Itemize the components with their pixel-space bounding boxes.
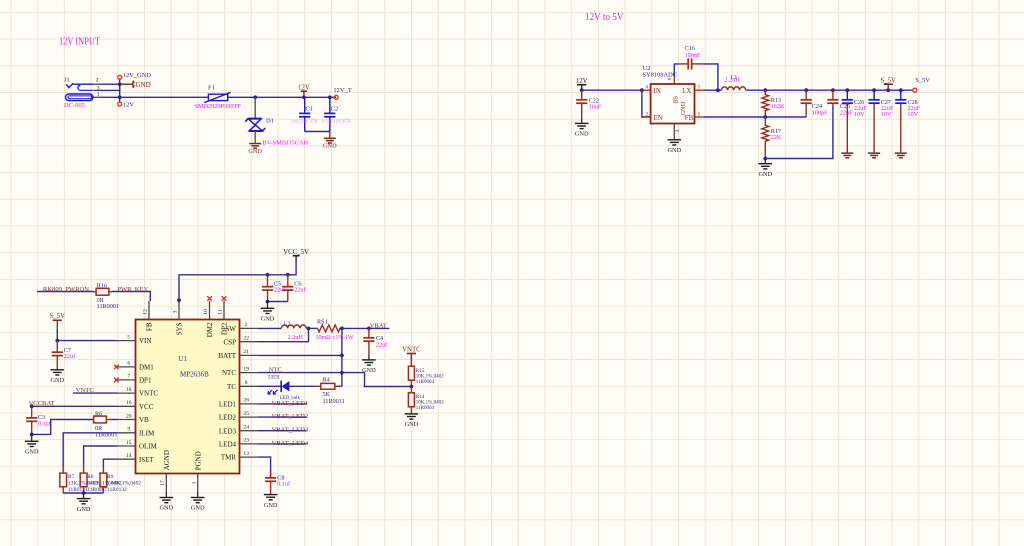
value RS1 bbox=[316, 335, 354, 341]
wire SW to L2 bbox=[258, 327, 282, 329]
svg-text:J1: J1 bbox=[64, 77, 70, 84]
svg-text:7.68K,1%,0402: 7.68K,1%,0402 bbox=[107, 480, 141, 486]
U1 pin 11 DP2 bbox=[218, 301, 224, 320]
junction C26 top bbox=[845, 88, 849, 92]
junction RS1 out bbox=[340, 327, 344, 331]
svg-text:3: 3 bbox=[173, 310, 179, 313]
designator LED1 bbox=[268, 375, 280, 380]
U1 pin 23 LED4 bbox=[240, 438, 259, 444]
svg-text:VIN: VIN bbox=[139, 337, 151, 345]
capacitor C7 bbox=[52, 341, 76, 369]
svg-text:LED1: LED1 bbox=[268, 375, 280, 380]
junction R13 top bbox=[763, 88, 767, 92]
capacitor C26 bbox=[842, 90, 867, 118]
power stem VCCBAT bbox=[31, 406, 33, 418]
U1 pin 24 LED3 bbox=[240, 425, 259, 431]
svg-text:SYS: SYS bbox=[176, 322, 184, 335]
svg-text:2: 2 bbox=[645, 111, 648, 117]
power port 12V_T bbox=[333, 87, 351, 99]
svg-text:D1: D1 bbox=[266, 118, 274, 125]
svg-text:VB: VB bbox=[139, 416, 149, 424]
partnum R9 bbox=[107, 487, 127, 493]
inductor L2 bbox=[282, 325, 307, 328]
power port VCC_5V bbox=[283, 249, 309, 262]
svg-text:SMD2920P300TF: SMD2920P300TF bbox=[194, 103, 241, 110]
svg-text:23: 23 bbox=[243, 438, 249, 444]
capacitor C27 bbox=[869, 90, 894, 118]
svg-text:BS: BS bbox=[672, 95, 679, 103]
svg-text:IN: IN bbox=[654, 87, 661, 95]
junction C7 tap bbox=[55, 339, 59, 343]
ground symbol C26 bbox=[841, 152, 853, 158]
designator R9 bbox=[107, 474, 114, 480]
wire LED4 net bbox=[258, 443, 307, 445]
wire J1 pin2 to node bbox=[100, 83, 120, 85]
svg-text:R4: R4 bbox=[323, 377, 330, 384]
junction LX bootstrap bbox=[716, 88, 720, 92]
U2 pin 5 LX bbox=[695, 85, 704, 91]
designator R7 bbox=[68, 474, 75, 480]
svg-text:ISET: ISET bbox=[139, 456, 155, 464]
partnum R14 bbox=[416, 406, 435, 411]
svg-text:GND: GND bbox=[50, 377, 64, 384]
wire battery vertical bbox=[341, 328, 343, 386]
svg-text:GND: GND bbox=[248, 148, 262, 155]
svg-text:AGND: AGND bbox=[163, 450, 171, 470]
wire C1 bottom to C2 bottom bbox=[305, 131, 330, 133]
svg-text:12V to 5V: 12V to 5V bbox=[585, 12, 624, 23]
svg-text:6: 6 bbox=[127, 361, 130, 367]
svg-text:R14: R14 bbox=[416, 394, 425, 400]
U1 pin 19 NTC bbox=[240, 366, 259, 372]
wire LED2 net bbox=[258, 416, 307, 418]
svg-text:S_5V: S_5V bbox=[50, 313, 66, 320]
U1 pin 5 VIN bbox=[117, 334, 136, 340]
svg-text:11R0132: 11R0132 bbox=[107, 487, 127, 493]
svg-text:3: 3 bbox=[675, 129, 681, 132]
junction NTC cross bbox=[340, 371, 344, 375]
J1 pin 3 bbox=[93, 85, 100, 91]
wire OLIM bbox=[84, 446, 117, 467]
J1 pin 2 bbox=[93, 78, 100, 85]
svg-text:GND: GND bbox=[758, 171, 772, 178]
ground C2 bbox=[323, 132, 337, 150]
svg-text:22: 22 bbox=[243, 336, 249, 342]
junction C3 bottom bbox=[30, 433, 34, 437]
charger IC U1 MP2636B bbox=[136, 320, 240, 474]
value SY8108ADC bbox=[643, 72, 677, 79]
ground U2 pin3 bbox=[667, 139, 681, 154]
svg-text:VCC: VCC bbox=[139, 403, 154, 411]
svg-text:LED3: LED3 bbox=[219, 427, 237, 435]
resistor R4 bbox=[315, 383, 339, 389]
U1 pin 13 TMR bbox=[240, 451, 259, 457]
junction D1 tap bbox=[253, 95, 257, 99]
U1 pin 25 LED2 bbox=[240, 411, 259, 417]
value R4 5K bbox=[323, 391, 331, 398]
svg-text:TMR: TMR bbox=[221, 454, 237, 462]
wire L2 to RS1 bbox=[306, 327, 317, 329]
power port 12V_GND bbox=[118, 72, 152, 82]
value 22K bbox=[771, 134, 782, 141]
svg-text:12V: 12V bbox=[298, 85, 310, 92]
svg-text:1: 1 bbox=[698, 111, 701, 117]
wire 12V rail J1 to F1 bbox=[100, 96, 205, 98]
resistor R13 bbox=[762, 90, 769, 117]
net label RK809_PWRON bbox=[43, 286, 89, 293]
resistor R17 bbox=[762, 117, 769, 159]
value BV-SMBJ15CAH bbox=[263, 139, 309, 146]
svg-text:DP2: DP2 bbox=[221, 322, 229, 335]
wire RS1 to VBAT bbox=[342, 327, 390, 329]
svg-text:BV-SMBJ15CAH: BV-SMBJ15CAH bbox=[263, 139, 309, 146]
value R15 bbox=[416, 374, 444, 379]
svg-text:0.1uf: 0.1uf bbox=[277, 481, 291, 488]
svg-text:22uf: 22uf bbox=[294, 287, 306, 294]
designator R15 bbox=[416, 368, 425, 374]
ground R17 bbox=[758, 159, 772, 178]
svg-text:VBAT: VBAT bbox=[370, 322, 387, 329]
U1 pin 1 PGND bbox=[191, 474, 197, 493]
svg-text:LED1: LED1 bbox=[219, 401, 237, 409]
svg-text:12V_GND: 12V_GND bbox=[123, 72, 152, 79]
partnum R6 11R0001 bbox=[95, 431, 117, 438]
svg-text:GND: GND bbox=[136, 81, 151, 89]
wire TC to LED bbox=[258, 385, 281, 387]
U1 pin 17 AGND bbox=[160, 474, 166, 493]
TVS diode D1 bbox=[245, 97, 265, 142]
svg-text:100pF: 100pF bbox=[812, 109, 828, 116]
svg-text:VBAT_LED3: VBAT_LED3 bbox=[272, 427, 309, 434]
inductor L1 bbox=[722, 87, 746, 90]
wire C3 to VB row bbox=[32, 420, 93, 435]
svg-text:R7: R7 bbox=[68, 474, 75, 480]
capacitor C25 bbox=[827, 90, 853, 116]
U1 pin 14 ISET bbox=[117, 453, 136, 459]
svg-text:GND: GND bbox=[25, 449, 39, 456]
svg-text:22K: 22K bbox=[771, 134, 782, 141]
wire RK809_PWRON to R16 bbox=[37, 291, 93, 293]
svg-text:10K,1%,0402: 10K,1%,0402 bbox=[416, 400, 444, 405]
svg-text:GND: GND bbox=[191, 505, 205, 512]
svg-text:R8: R8 bbox=[87, 474, 94, 480]
svg-text:10V: 10V bbox=[881, 111, 892, 118]
svg-text:EN: EN bbox=[654, 114, 663, 122]
junction FB divider bbox=[763, 115, 767, 119]
wire BATT node bbox=[258, 354, 342, 356]
U1 pin 16 VCC bbox=[117, 400, 136, 406]
svg-text:2.2uH: 2.2uH bbox=[288, 334, 304, 341]
no-connect DP2 bbox=[222, 296, 227, 301]
capacitor C5 bbox=[262, 275, 286, 302]
J1 pin 1 bbox=[93, 92, 100, 98]
junction S_5V bbox=[886, 88, 890, 92]
value DC-005 bbox=[64, 102, 85, 109]
net label PWR_KEY bbox=[117, 286, 148, 293]
junction C5 gnd bbox=[266, 300, 270, 304]
capacitor C3 bbox=[26, 414, 52, 434]
U1 pin 6 DM1 bbox=[117, 361, 136, 367]
svg-text:RS1: RS1 bbox=[317, 318, 328, 325]
svg-text:PGND: PGND bbox=[194, 451, 202, 470]
svg-text:F1: F1 bbox=[208, 84, 215, 91]
svg-text:10uF: 10uF bbox=[589, 104, 602, 111]
svg-text:NTC: NTC bbox=[222, 369, 236, 377]
svg-text:21: 21 bbox=[243, 349, 249, 355]
svg-text:LX: LX bbox=[682, 87, 691, 95]
capacitor C2 bbox=[322, 97, 351, 131]
resistor R7 bbox=[60, 467, 67, 494]
svg-text:12V: 12V bbox=[123, 102, 134, 109]
capacitor C6 bbox=[282, 275, 306, 302]
junction EN branch bbox=[640, 88, 644, 92]
resistor R6 bbox=[93, 416, 112, 423]
junction C6 top bbox=[286, 273, 290, 277]
designator R17 bbox=[771, 128, 781, 135]
U1 pin 10 DM2 bbox=[203, 301, 209, 320]
wire C16 to LX node bbox=[703, 64, 718, 90]
junction VCCBAT C3 bbox=[30, 404, 34, 408]
svg-text:DM1: DM1 bbox=[139, 364, 154, 372]
svg-text:VNTC: VNTC bbox=[402, 347, 421, 354]
power port 12V input bbox=[576, 78, 588, 90]
U2 pin 6 BS bbox=[667, 76, 674, 84]
wire CSP bbox=[258, 328, 309, 341]
value LED_bulk bbox=[280, 396, 301, 401]
svg-text:6: 6 bbox=[667, 77, 673, 80]
svg-text:25: 25 bbox=[243, 411, 249, 417]
svg-text:4: 4 bbox=[645, 85, 648, 91]
svg-text:S_5V: S_5V bbox=[880, 77, 896, 84]
ground C27 bbox=[873, 103, 875, 152]
power port VNTC right bbox=[402, 347, 421, 367]
svg-text:R6: R6 bbox=[95, 410, 102, 417]
junction C4 tap bbox=[367, 327, 371, 331]
svg-text:26: 26 bbox=[243, 398, 249, 404]
connector J1 DC-005 barrel jack bbox=[66, 83, 94, 100]
wire L1 to output rail bbox=[746, 89, 910, 91]
junction 12V C22 bbox=[580, 88, 584, 92]
svg-text:DP1: DP1 bbox=[139, 377, 152, 385]
resistor R8 bbox=[80, 467, 87, 494]
U2 pin 2 EN bbox=[642, 111, 651, 117]
net label VBAT_LED4 bbox=[272, 440, 309, 447]
value L2 2.2uH bbox=[288, 334, 304, 341]
power port 12V bbox=[118, 97, 135, 108]
svg-text:0.1uf: 0.1uf bbox=[38, 420, 52, 427]
svg-text:R16: R16 bbox=[97, 283, 107, 290]
value R6 0R bbox=[95, 425, 103, 432]
ground PGND bbox=[191, 492, 205, 512]
ground C4 bbox=[362, 354, 376, 374]
svg-text:GND: GND bbox=[405, 421, 419, 428]
designator RS1 bbox=[317, 318, 328, 325]
svg-text:12V INPUT: 12V INPUT bbox=[59, 37, 100, 48]
svg-text:5: 5 bbox=[698, 85, 701, 91]
ground symbol C27 bbox=[868, 152, 880, 158]
junction CSP tap bbox=[307, 327, 311, 331]
value R7 bbox=[68, 480, 98, 486]
svg-text:CSP: CSP bbox=[224, 338, 237, 346]
svg-text:VBAT_LED4: VBAT_LED4 bbox=[272, 440, 309, 447]
U2 pin 3 GND bbox=[674, 124, 681, 139]
designator R16 bbox=[97, 283, 107, 290]
svg-text:10V: 10V bbox=[907, 111, 918, 118]
svg-text:11: 11 bbox=[218, 309, 224, 315]
svg-text:12V_T: 12V_T bbox=[333, 87, 351, 94]
net label VNTC left bbox=[76, 387, 95, 394]
ground R7R8R9 bbox=[77, 493, 91, 513]
junction 12V_GND node bbox=[118, 82, 122, 86]
svg-text:20: 20 bbox=[126, 413, 132, 419]
wire NTC to divider bbox=[342, 373, 412, 387]
svg-text:C2: C2 bbox=[331, 106, 339, 113]
svg-text:VBAT_LED2: VBAT_LED2 bbox=[272, 413, 309, 420]
junction R8 gnd bbox=[82, 491, 86, 495]
value R9 bbox=[107, 480, 141, 486]
svg-text:11R0011: 11R0011 bbox=[323, 398, 345, 405]
wire ISET bbox=[103, 459, 117, 466]
svg-text:1: 1 bbox=[191, 481, 197, 484]
power port S_5V left bbox=[50, 313, 66, 332]
net label VBAT_LED1 bbox=[272, 400, 309, 407]
power port S_5V bar bbox=[880, 77, 896, 90]
U1 pin 15 OLIM bbox=[117, 440, 136, 446]
net label VBAT bbox=[370, 322, 387, 329]
wire EN branch bbox=[642, 90, 651, 117]
wire R4 to battery node bbox=[338, 385, 342, 387]
svg-text:22uf: 22uf bbox=[64, 353, 76, 360]
svg-text:13: 13 bbox=[243, 451, 249, 457]
designator R14 bbox=[416, 394, 425, 400]
wire LX to node bbox=[703, 89, 721, 91]
wire VNTC to pin bbox=[73, 392, 117, 394]
junction C28 top bbox=[899, 88, 903, 92]
ground C5 C6 bbox=[261, 302, 275, 323]
designator R6 bbox=[95, 410, 102, 417]
svg-text:5: 5 bbox=[127, 334, 130, 340]
ground AGND bbox=[159, 492, 173, 512]
svg-text:9: 9 bbox=[127, 427, 130, 433]
resistor RS1 bbox=[317, 325, 342, 332]
svg-text:OLIM: OLIM bbox=[139, 443, 158, 451]
capacitor C1 bbox=[290, 97, 318, 131]
wire LED3 net bbox=[258, 430, 307, 432]
svg-text:14: 14 bbox=[126, 453, 132, 459]
svg-text:DM2: DM2 bbox=[206, 322, 214, 337]
U1 pin 8 TC bbox=[240, 380, 259, 386]
junction C2 top bbox=[328, 95, 332, 99]
svg-text:18: 18 bbox=[126, 387, 132, 393]
svg-text:GND: GND bbox=[575, 131, 589, 138]
resistor R16 bbox=[93, 288, 112, 295]
svg-text:10: 10 bbox=[203, 309, 209, 315]
power port S_5V circle bbox=[910, 77, 931, 92]
svg-text:11R0004: 11R0004 bbox=[416, 406, 435, 411]
net label NTC bbox=[269, 366, 283, 373]
wire J1 pin3 up to pin2 row bbox=[100, 84, 120, 90]
partnum R15 bbox=[416, 380, 435, 385]
designator L1 bbox=[731, 74, 738, 81]
junction BATT bbox=[340, 354, 344, 358]
title 12V INPUT bbox=[59, 37, 100, 48]
wire NTC row bbox=[258, 372, 342, 374]
svg-text:22uF: 22uF bbox=[840, 109, 853, 116]
svg-text:GND: GND bbox=[261, 316, 275, 323]
U1 pin 9 ILIM bbox=[117, 427, 136, 433]
ground R14 bbox=[405, 413, 419, 429]
svg-text:R9: R9 bbox=[107, 474, 114, 480]
wire R7 R8 R9 common bbox=[63, 492, 103, 494]
wire FB row bbox=[703, 116, 806, 118]
svg-text:ILIM: ILIM bbox=[139, 429, 155, 437]
U2 pin 4 IN bbox=[642, 85, 651, 91]
svg-text:MP2636B: MP2636B bbox=[180, 371, 209, 379]
wire node down to 12V rail bbox=[119, 84, 121, 97]
resistor R9 bbox=[100, 467, 107, 494]
U1 pin 7 DP1 bbox=[117, 374, 136, 380]
wire ILIM bbox=[63, 433, 117, 467]
designator F1 bbox=[208, 84, 215, 91]
designator D1 bbox=[266, 118, 274, 125]
svg-text:1: 1 bbox=[97, 92, 100, 98]
wire LED to R4 bbox=[289, 385, 314, 387]
port GND bbox=[120, 81, 151, 89]
designator R4 bbox=[323, 377, 330, 384]
svg-text:2.2uH: 2.2uH bbox=[725, 77, 741, 84]
designator R13 bbox=[771, 97, 781, 104]
wire F1 to C2 node bbox=[232, 96, 337, 98]
svg-text:U1: U1 bbox=[178, 355, 187, 363]
svg-text:L2: L2 bbox=[284, 320, 291, 327]
wire S_5V to VIN bbox=[57, 330, 117, 341]
ground D1 bbox=[248, 143, 262, 155]
value R8 bbox=[87, 480, 121, 486]
regulator U2 SY8108ADC bbox=[651, 84, 695, 124]
no-connect DP1 bbox=[114, 378, 119, 383]
junction R15 R14 bbox=[410, 385, 414, 389]
wire LED1 net bbox=[258, 403, 307, 405]
U1 pin 2 SW bbox=[240, 322, 259, 328]
partnum R4 11R0011 bbox=[323, 398, 345, 405]
svg-text:GND: GND bbox=[667, 147, 681, 154]
svg-text:3: 3 bbox=[97, 85, 100, 91]
value SMD2920P300TF bbox=[194, 103, 241, 110]
svg-text:R15: R15 bbox=[416, 368, 425, 374]
ground C3 bbox=[25, 434, 39, 455]
junction SYS wire bbox=[177, 298, 181, 302]
wire VCC row bbox=[32, 405, 117, 407]
junction 12V rail at J1 bbox=[118, 95, 122, 99]
svg-text:TC: TC bbox=[227, 383, 236, 391]
designator R8 bbox=[87, 474, 94, 480]
U1 pin 12 FB bbox=[143, 301, 149, 320]
wire R16 to FB pin bbox=[112, 292, 150, 302]
wire BS up bbox=[674, 64, 679, 76]
power port 12V above C1 bbox=[298, 85, 310, 98]
junction 12V port C1 bbox=[302, 95, 306, 99]
U1 pin 22 CSP bbox=[240, 336, 259, 342]
svg-text:10K,1%,0402: 10K,1%,0402 bbox=[416, 374, 444, 379]
junction R17 gnd bbox=[763, 157, 767, 161]
svg-text:22uf: 22uf bbox=[376, 342, 388, 349]
svg-text:162K: 162K bbox=[771, 103, 785, 110]
svg-text:2: 2 bbox=[96, 78, 99, 84]
svg-text:16: 16 bbox=[126, 400, 132, 406]
value L1 2.2uH bbox=[725, 77, 741, 84]
partnum R16 11R0001 bbox=[97, 303, 119, 310]
wire 12V to U2 IN bbox=[582, 89, 642, 91]
